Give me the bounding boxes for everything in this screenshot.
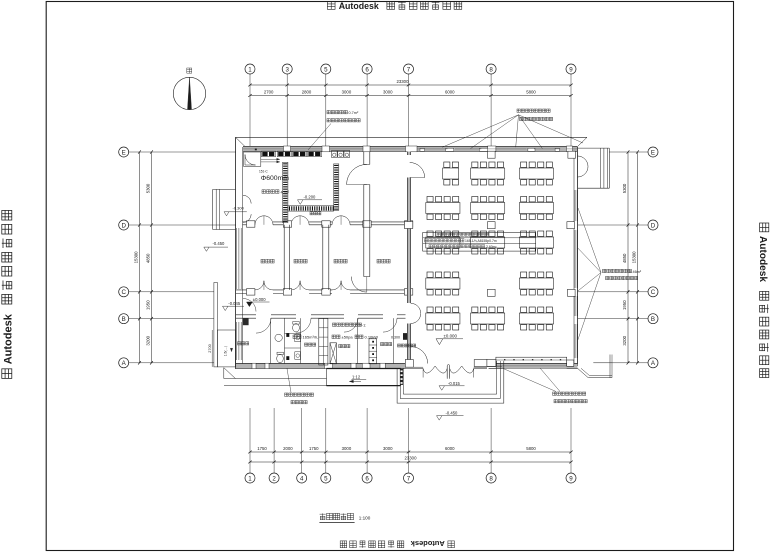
svg-text:2: 2	[272, 475, 276, 482]
left dimension segment line	[151, 152, 153, 363]
SW ramp strip	[214, 283, 218, 367]
svg-text:1: 1	[248, 66, 252, 73]
floor drains (black)	[286, 333, 289, 337]
exterior wall left	[235, 137, 237, 369]
SW ramp dim 2700	[211, 330, 213, 367]
dining west wall (axis 7) with glazing band	[407, 152, 410, 156]
table group row2 x519	[521, 197, 527, 202]
svg-text:7: 7	[407, 66, 411, 73]
dishwash equipment column	[369, 339, 377, 364]
locker column block	[319, 319, 328, 366]
svg-text:B: B	[651, 316, 655, 323]
freestanding columns dining	[488, 151, 496, 158]
svg-text:1:100: 1:100	[359, 515, 371, 520]
svg-text:0.7m²: 0.7m²	[349, 111, 359, 115]
elevation -0.015	[439, 386, 445, 390]
annotation bottom-left vent	[285, 393, 288, 396]
entrance steps (nested)	[397, 361, 504, 403]
bottom axis extension lines	[249, 408, 251, 473]
svg-text:23300: 23300	[405, 455, 418, 460]
top dimension segment line	[250, 95, 571, 97]
svg-text:0.300: 0.300	[391, 336, 400, 340]
bottom dimension segment line	[250, 451, 571, 453]
bottom dimension total line 23300	[250, 461, 571, 463]
table group row4 x519	[521, 272, 527, 277]
locker strip partitions	[270, 318, 272, 363]
top wall window band	[243, 146, 577, 151]
wall on axis C (horizontal)	[236, 289, 255, 291]
svg-text:-0.200: -0.200	[304, 195, 317, 200]
svg-text:5300: 5300	[622, 183, 627, 193]
svg-text:±0.000: ±0.000	[444, 334, 458, 339]
svg-text:2700: 2700	[208, 344, 212, 352]
SW platform corner	[223, 368, 225, 379]
SE platform corner	[578, 368, 589, 377]
svg-text:151-C: 151-C	[259, 170, 268, 174]
ramp 1:12 at south	[327, 369, 401, 386]
svg-text:-0.450: -0.450	[446, 411, 459, 416]
drawing title: floor plan 1:100	[320, 513, 326, 515]
svg-text:165-1/h,A8155p0.7m: 165-1/h,A8155p0.7m	[465, 239, 497, 243]
elevation +-0.000 dining	[436, 339, 443, 345]
right axis circles E D C B A	[648, 147, 658, 157]
kitchen vestibule with quarter-arc	[244, 152, 261, 166]
window inset rects in top band	[420, 148, 425, 151]
right dimension segment line	[627, 152, 629, 363]
svg-text:5: 5	[324, 66, 328, 73]
svg-text:D: D	[121, 222, 126, 229]
door at south end of axis-6 wall	[351, 277, 367, 293]
room label storage 2	[294, 259, 298, 263]
main entrance double-action doors (south)	[423, 366, 435, 373]
columns at bottom wall	[487, 359, 496, 366]
svg-text:1750: 1750	[257, 446, 267, 451]
short cubicle walls	[285, 333, 301, 335]
watermark right (rotated 90)	[757, 223, 769, 378]
svg-text:3: 3	[285, 66, 289, 73]
annotation bottom-right windows	[553, 392, 556, 395]
fan annotation text F-1	[333, 323, 336, 326]
table group row2 x470	[472, 197, 478, 202]
toilet fixtures - basin oval	[275, 334, 282, 341]
toilet fixtures - WC oval 2	[277, 354, 284, 362]
kitchen flue dim lines with arrows	[261, 158, 280, 160]
black pier at west end of wall B	[243, 318, 249, 325]
elevation -0.300 west porch	[224, 212, 229, 216]
table group row2 x425	[427, 197, 433, 202]
right dim ticks	[627, 150, 630, 153]
white pier east of entrance	[474, 360, 496, 367]
svg-text:3000: 3000	[342, 446, 352, 451]
door arc corridor west end	[243, 299, 256, 312]
U-shaped work counter with hatch	[283, 162, 339, 222]
kitchen sinks (3)	[331, 151, 337, 158]
svg-text:2700: 2700	[264, 90, 274, 95]
svg-text:±0.000: ±0.000	[253, 297, 266, 302]
svg-text:3000: 3000	[383, 90, 393, 95]
svg-text:6000: 6000	[445, 90, 455, 95]
table group row1 x470	[472, 162, 478, 167]
svg-text:4: 4	[300, 475, 304, 482]
elevation -0.450 west	[204, 247, 209, 251]
left dim ticks	[150, 150, 153, 153]
partition wall axis 6 lower	[363, 225, 365, 277]
bottom exterior wall	[236, 364, 406, 369]
table group row5 x425	[427, 307, 433, 312]
bottom axis circles 1 2 4 5 6 7 8 9	[245, 473, 255, 483]
left axis circles E D C B A	[119, 147, 129, 157]
west porch with steps	[213, 188, 236, 190]
wall on axis B (horizontal, locker rooms north)	[236, 314, 256, 316]
table group row5 x519	[521, 307, 527, 312]
left axis extension lines	[129, 151, 236, 153]
elevation -0.045	[223, 306, 229, 310]
elevation +-0.000 corridor	[247, 302, 253, 307]
table group row3 x425	[427, 231, 433, 236]
west wall glazing lines	[236, 228, 238, 289]
fan annotation long line	[293, 335, 297, 339]
svg-text:-0.015: -0.015	[448, 381, 461, 386]
column dining west wall at D	[404, 222, 412, 229]
svg-text:C: C	[651, 289, 656, 296]
wall on axis D (horizontal, kitchen south)	[243, 221, 255, 223]
basin units with circles	[295, 334, 301, 342]
room label serving	[377, 259, 381, 263]
svg-text:8: 8	[489, 66, 493, 73]
elevation -0.450 south	[437, 416, 443, 420]
watermark bottom (rotated 180)	[340, 539, 454, 548]
left dimension total line 15300	[139, 152, 141, 363]
west porch double door	[243, 195, 251, 203]
glazing mid-lines in top band	[243, 148, 284, 150]
doors in wall B (swing south into locker rooms)	[256, 318, 271, 333]
table group row4 x425	[427, 272, 433, 277]
kitchen stove equipment row (4 groups)	[261, 151, 275, 157]
table group row1 x519	[521, 162, 527, 167]
svg-text:1750: 1750	[309, 446, 319, 451]
svg-text:5800: 5800	[526, 446, 536, 451]
svg-text:3000: 3000	[342, 90, 352, 95]
svg-text:6: 6	[365, 66, 369, 73]
svg-text:-0.045: -0.045	[228, 301, 241, 306]
svg-text:1:6(…): 1:6(…)	[224, 346, 228, 356]
NE stair landing	[578, 147, 609, 149]
column west of entrance	[405, 360, 413, 368]
svg-text:5.46m²: 5.46m²	[629, 270, 642, 274]
watermark left (rotated -90)	[2, 210, 15, 378]
svg-text:4850: 4850	[622, 253, 627, 263]
svg-text:1: 1	[248, 475, 252, 482]
svg-text:B: B	[122, 316, 126, 323]
kitchen area label 40m2	[262, 190, 266, 194]
columns on wall D	[247, 221, 255, 227]
svg-text:6: 6	[365, 475, 369, 482]
svg-text:1950: 1950	[622, 300, 627, 310]
svg-text:4850: 4850	[146, 253, 151, 263]
svg-text:6000: 6000	[445, 446, 455, 451]
dark block dining west wall	[403, 333, 407, 340]
room label storage 1	[261, 259, 265, 263]
table group row1 x442	[444, 162, 450, 167]
columns on wall C	[247, 289, 255, 295]
svg-text:-0.300: -0.300	[233, 206, 245, 211]
toilet fixtures - WC oval 1	[293, 324, 300, 332]
exterior wall right	[577, 147, 579, 366]
right dimension total line 15300	[637, 152, 639, 363]
partition wall axis 5 (vertical)	[322, 225, 324, 290]
long table band with annotation text	[423, 233, 536, 252]
svg-text:165m³/h,: 165m³/h,	[303, 335, 319, 340]
svg-text:8: 8	[489, 475, 493, 482]
table group row5 x470	[472, 307, 478, 312]
double door dining west (at C-B corridor)	[411, 303, 421, 313]
strip room labels	[238, 342, 241, 345]
room label prep	[334, 259, 338, 263]
hatched column at ramp east end	[400, 369, 403, 385]
annotation smudge rows in band	[437, 233, 440, 236]
entrance threshold lines and mullion	[406, 366, 424, 368]
annotation right side windows 5.46m2	[603, 269, 606, 272]
svg-text:5: 5	[324, 475, 328, 482]
bottom dim tick marks	[248, 451, 251, 454]
svg-text:D: D	[651, 222, 656, 229]
partition disinfection room	[357, 318, 359, 363]
svg-text:F-1:: F-1:	[360, 323, 367, 327]
partition wall axis 3 (vertical)	[283, 225, 285, 290]
svg-text:Autodesk: Autodesk	[2, 313, 14, 364]
svg-text:9: 9	[569, 66, 573, 73]
double doors in wall C (swing north into storage rooms)	[255, 281, 264, 290]
svg-text:5800: 5800	[526, 90, 536, 95]
north arrow compass	[173, 77, 205, 109]
top axis extension lines	[249, 74, 251, 146]
table group row3 x470	[472, 231, 478, 236]
svg-text:9: 9	[569, 475, 573, 482]
annotation top-right windows	[517, 109, 520, 112]
svg-text:40m²: 40m²	[281, 191, 290, 195]
svg-text:Autodesk: Autodesk	[339, 1, 379, 11]
svg-text:7: 7	[407, 475, 411, 482]
svg-text:C: C	[121, 289, 126, 296]
annotation top-left window	[327, 111, 330, 114]
svg-text:3200: 3200	[622, 335, 627, 345]
svg-text:1:12: 1:12	[352, 375, 361, 380]
svg-text:2000: 2000	[283, 446, 293, 451]
svg-text:2.60m²: 2.60m²	[486, 245, 497, 249]
door in axis-6 wall (swing west into kitchen)	[347, 164, 367, 184]
svg-text:3000: 3000	[383, 446, 393, 451]
top axis circles 1 3 5 6 7 8 9	[245, 64, 255, 74]
svg-text:5300: 5300	[146, 183, 151, 193]
right axis extension lines	[610, 151, 649, 153]
top dim tick marks	[248, 94, 251, 97]
watermark top: Autodesk education stamp	[327, 1, 461, 11]
svg-text:3200: 3200	[145, 335, 150, 345]
duct shaft with X brace	[330, 343, 336, 364]
svg-text:0.10kW: 0.10kW	[365, 335, 379, 340]
svg-text:Autodesk: Autodesk	[757, 236, 768, 282]
canopy outline top	[236, 136, 588, 138]
east wall glazing lines	[573, 190, 575, 221]
door dining NW corner (swing east)	[410, 163, 425, 178]
bench/sill band bottom right with ticks	[496, 357, 567, 366]
svg-text:±50pa: ±50pa	[342, 335, 354, 340]
partition wall axis 6 upper (kitchen east wall with door)	[363, 152, 365, 165]
svg-text:-0.450: -0.450	[213, 241, 226, 246]
top dimension total line 23300	[250, 84, 571, 86]
table group row3 x519	[521, 231, 527, 236]
svg-text:1950: 1950	[146, 300, 151, 310]
svg-text:15300: 15300	[632, 251, 637, 264]
elevation -0.200 in kitchen	[298, 200, 304, 205]
worktable label (cao zuo tai)	[310, 212, 313, 215]
dining east wall door (to NE stair, double leaves)	[578, 156, 589, 167]
svg-text:23300: 23300	[397, 79, 410, 84]
double doors in wall D (swing north into kitchen)	[255, 216, 264, 225]
svg-text:2800: 2800	[302, 90, 312, 95]
svg-text:E: E	[651, 149, 655, 156]
door dining SW (swing NE)	[411, 347, 428, 364]
svg-text:Autodesk: Autodesk	[410, 539, 445, 548]
svg-text:E: E	[122, 149, 126, 156]
svg-text:Φ600mm: Φ600mm	[261, 175, 289, 182]
partition dish collection	[393, 318, 395, 363]
svg-text:15300: 15300	[134, 251, 139, 264]
